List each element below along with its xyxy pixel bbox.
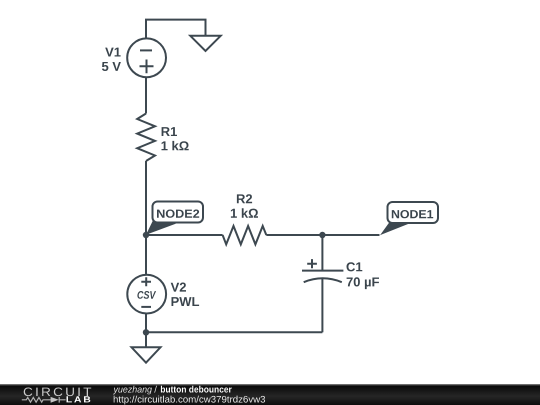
voltage source V2 — [127, 275, 166, 314]
label R1 value 1 kOhm — [162, 141, 189, 150]
resistor R2 — [223, 226, 267, 244]
footer bar — [0, 384, 540, 405]
label R1 — [162, 127, 177, 136]
wire node to bottom ground — [145, 332, 147, 347]
node NODE2 flag — [146, 202, 203, 235]
node NODE1 flag — [380, 202, 438, 235]
wire bottom node to capacitor — [146, 331, 322, 333]
credit author — [113, 386, 152, 395]
logo resistor-diode row — [22, 397, 66, 403]
credit slash — [154, 386, 157, 393]
voltage source V1 — [127, 38, 166, 77]
logo word LAB — [67, 396, 91, 402]
wire R2 to NODE1 — [266, 234, 379, 236]
wire NODE2 to R2 — [146, 234, 223, 236]
wire R1 to V2 through node — [145, 161, 147, 274]
junction dot bottom — [143, 329, 149, 335]
label R2 — [237, 194, 252, 203]
capacitor C1 — [302, 235, 343, 332]
wire V1 to R1 — [145, 77, 147, 113]
credit title — [161, 386, 232, 393]
ground bottom — [132, 347, 161, 362]
resistor R1 — [137, 114, 155, 162]
label R2 value 1 kOhm — [231, 208, 258, 217]
capacitor C1 plus sign — [307, 259, 317, 268]
wire V1 top to ground — [146, 20, 206, 39]
ground top — [190, 36, 220, 51]
label C1 value 70 uF — [347, 277, 379, 289]
label V1 value 5 V — [102, 62, 121, 71]
junction dot NODE1 — [319, 232, 325, 238]
credit url — [114, 396, 265, 405]
label V2 value PWL — [172, 297, 200, 306]
label C1 — [347, 262, 363, 271]
logo diode arrow — [51, 397, 59, 403]
label V1 — [105, 48, 120, 57]
wire V2 to bottom node — [145, 314, 147, 333]
label V2 — [171, 283, 186, 292]
logo word CIRCUIT — [24, 388, 92, 397]
junction dot NODE2 — [143, 232, 149, 238]
label CSV inside V2 — [137, 291, 156, 299]
